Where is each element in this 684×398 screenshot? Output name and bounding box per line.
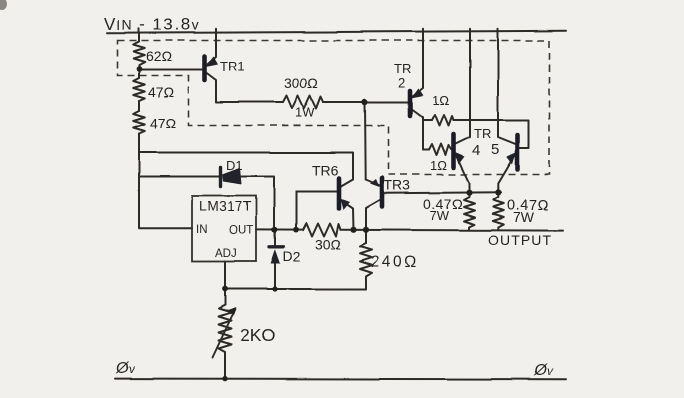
svg-text:TR: TR bbox=[474, 126, 491, 141]
wire 240R top from OUT line bbox=[365, 230, 367, 244]
wire TR6 collector branch: left rail to vertical bbox=[139, 153, 353, 180]
diode D1 cathode bar bbox=[219, 168, 222, 187]
svg-text:OUTPUT: OUTPUT bbox=[488, 232, 552, 248]
svg-text:5: 5 bbox=[491, 141, 499, 158]
junction TR4 emitter / 0.47R left bbox=[466, 190, 472, 196]
transistor TR5 collector to VIN rail bbox=[498, 29, 516, 144]
resistor 1R lower bbox=[429, 144, 451, 155]
svg-text:LM317T: LM317T bbox=[199, 199, 252, 214]
resistor 30R bbox=[303, 223, 341, 236]
transistor TR5 emitter down to sense node bbox=[498, 155, 515, 193]
junction ADJ node bbox=[222, 286, 228, 292]
svg-text:TR6: TR6 bbox=[312, 162, 339, 178]
transistor TR3 base bar bbox=[380, 178, 385, 207]
transistor TR2 base bar bbox=[408, 91, 413, 116]
svg-text:47Ω: 47Ω bbox=[150, 115, 176, 131]
svg-text:1Ω: 1Ω bbox=[430, 158, 447, 173]
transistor TR1 base bar bbox=[202, 57, 207, 81]
transistor TR4 base bar bbox=[451, 135, 456, 168]
junction D1/D2 on OUT line bbox=[272, 227, 278, 233]
wire upper 1R wrap to TR5 base bbox=[454, 120, 530, 148]
wire D1 branch from left rail bbox=[139, 176, 221, 178]
svg-text:62Ω: 62Ω bbox=[146, 48, 172, 64]
resistor 240R bbox=[360, 244, 372, 282]
transistor TR3 collector down to OUT line bbox=[366, 200, 380, 230]
svg-text:240Ω: 240Ω bbox=[371, 254, 419, 271]
svg-text:300Ω: 300Ω bbox=[284, 75, 318, 91]
transistor TR3 emitter arrow bbox=[370, 179, 380, 187]
junction preset on 0V rail bbox=[222, 376, 227, 381]
transistor TR3 emitter up to node A bbox=[366, 180, 380, 186]
resistor 0.47R 7W right bbox=[493, 193, 504, 231]
svg-text:7W: 7W bbox=[513, 209, 535, 225]
wire D2 anode to ADJ line bbox=[274, 263, 276, 290]
transistor TR1 emitter to VIN rail bbox=[206, 29, 216, 66]
svg-text:D1: D1 bbox=[226, 158, 243, 173]
junction TR5 emitter / 0.47R right bbox=[495, 189, 501, 195]
wire TR1 base from 62R/47R junction bbox=[139, 69, 202, 71]
transistor TR6 base bar bbox=[337, 179, 342, 209]
svg-text:TR3: TR3 bbox=[384, 177, 411, 193]
variable resistor 2K0 bbox=[219, 305, 232, 352]
svg-text:OUT: OUT bbox=[229, 225, 253, 237]
transistor TR2 collector down bbox=[412, 110, 423, 150]
transistor TR6 emitter down to OUT line bbox=[341, 201, 354, 230]
resistor 0.47R 7W left bbox=[464, 193, 475, 230]
wire between 47R resistors bbox=[138, 101, 140, 111]
transistor TR1 collector down and 300R wire to TR2 base bbox=[206, 73, 283, 103]
resistor 62R bbox=[133, 42, 145, 70]
resistor 300R 1W bbox=[283, 96, 323, 109]
junction 62R/47R node bbox=[136, 66, 142, 72]
wire upper 1R branch bbox=[423, 119, 432, 121]
svg-text:30Ω: 30Ω bbox=[315, 236, 341, 252]
dashed module outline bbox=[118, 41, 550, 175]
transistor TR6 collector up bbox=[341, 180, 353, 187]
wire 30R to OUTPUT right end bbox=[341, 229, 564, 232]
svg-text:Øv: Øv bbox=[533, 362, 553, 379]
svg-text:7W: 7W bbox=[429, 208, 449, 223]
svg-text:2: 2 bbox=[398, 75, 405, 90]
preset wiper arrow bbox=[213, 310, 236, 358]
resistor 47R lower bbox=[133, 111, 145, 134]
svg-text:D2: D2 bbox=[283, 248, 301, 264]
transistor TR5 emitter arrow bbox=[507, 153, 517, 165]
transistor TR4 collector to VIN rail bbox=[456, 29, 471, 144]
svg-text:4: 4 bbox=[472, 142, 480, 159]
wire left column 47R to LM317 IN corner bbox=[139, 134, 192, 229]
junction TR3 collector / 240R on OUT line bbox=[363, 227, 369, 233]
svg-text:TR: TR bbox=[394, 61, 411, 76]
junction TR6 base branch on OUT line bbox=[293, 227, 299, 233]
svg-text:1Ω: 1Ω bbox=[432, 93, 449, 108]
svg-text:Øv: Øv bbox=[115, 360, 135, 377]
wire VIN top rail bbox=[107, 31, 566, 33]
wire D1 cathode side to OUT line bbox=[240, 177, 274, 230]
resistor 47R upper bbox=[133, 78, 145, 101]
svg-text:ADJ: ADJ bbox=[215, 248, 237, 260]
transistor TR4 emitter arrow bbox=[455, 153, 465, 165]
transistor TR6 emitter arrow bbox=[341, 199, 351, 211]
diode D1 triangle (cathode left) bbox=[222, 168, 242, 185]
wire 62R/47R junction down to 47R bbox=[138, 69, 140, 78]
junction node A on 300R line bbox=[362, 99, 368, 105]
transistor TR4 emitter down to sense node bbox=[456, 155, 470, 193]
wire left column from VIN rail to 62R bbox=[138, 29, 140, 42]
resistor 1R upper bbox=[432, 115, 454, 126]
wire 240R bottom to ADJ node bbox=[225, 281, 366, 289]
preset wiper arrowhead bbox=[228, 308, 236, 317]
wire TR3 base sense line bbox=[384, 192, 501, 193]
wire lower 1R branch bbox=[423, 149, 429, 151]
svg-text:1W: 1W bbox=[295, 105, 315, 120]
diode D2 cathode bar bbox=[269, 245, 284, 248]
wire LM317 OUT line and OUTPUT rail bbox=[256, 228, 303, 230]
wire 0V bottom rail bbox=[115, 378, 566, 381]
svg-text:47Ω: 47Ω bbox=[148, 84, 174, 100]
junction D2 anode on ADJ line bbox=[272, 286, 277, 291]
wire D2 vertical bbox=[274, 230, 276, 247]
svg-text:VIN - 13.8v: VIN - 13.8v bbox=[104, 15, 200, 34]
transistor TR2 emitter arrow bbox=[411, 88, 424, 98]
wire LM317 ADJ pin bbox=[224, 262, 226, 290]
op-amp-box regulator U1 LM317T bbox=[192, 196, 256, 262]
wire ADJ node down to preset bbox=[224, 289, 226, 305]
wire preset bottom to 0V rail bbox=[224, 352, 226, 379]
transistor TR6 base wire and branch down to OUT line bbox=[296, 192, 337, 230]
svg-text:TR1: TR1 bbox=[220, 59, 245, 74]
transistor TR1 emitter arrow bbox=[206, 57, 219, 68]
wire node A vertical: 300R junction down to TR3 emitter bbox=[364, 102, 367, 180]
svg-text:2KO: 2KO bbox=[240, 325, 275, 345]
wire 300R to TR2 base bar bbox=[323, 101, 408, 103]
transistor TR5 base bar bbox=[515, 135, 520, 170]
svg-text:IN: IN bbox=[196, 224, 208, 236]
diode D2 triangle (cathode up) bbox=[271, 249, 281, 264]
transistor TR2 emitter to VIN rail bbox=[412, 29, 423, 97]
junction TR6 emitter on OUT line bbox=[350, 227, 356, 233]
